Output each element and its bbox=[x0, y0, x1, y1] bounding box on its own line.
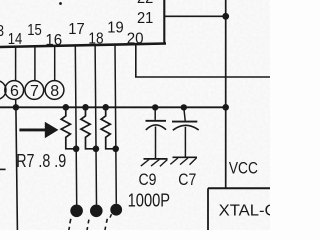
svg-text:14: 14 bbox=[8, 31, 23, 48]
svg-text:7: 7 bbox=[30, 83, 39, 100]
svg-text:1000P: 1000P bbox=[128, 190, 171, 210]
svg-text:20: 20 bbox=[127, 31, 144, 48]
svg-text:6: 6 bbox=[10, 83, 19, 100]
svg-text:15: 15 bbox=[27, 22, 42, 39]
svg-text:8: 8 bbox=[50, 83, 59, 100]
svg-text:21: 21 bbox=[137, 10, 153, 27]
svg-text:18: 18 bbox=[88, 31, 103, 48]
svg-text:22: 22 bbox=[137, 0, 153, 7]
svg-text:VCC: VCC bbox=[229, 159, 258, 178]
svg-text:C7: C7 bbox=[178, 170, 196, 189]
svg-text:13: 13 bbox=[0, 23, 4, 40]
svg-text:16: 16 bbox=[45, 32, 62, 49]
svg-text:17: 17 bbox=[68, 21, 84, 38]
svg-text:C9: C9 bbox=[139, 170, 157, 189]
svg-text:XTAL-C: XTAL-C bbox=[219, 202, 270, 219]
svg-text:19: 19 bbox=[107, 20, 123, 37]
svg-text:R7 .8 .9: R7 .8 .9 bbox=[16, 151, 66, 171]
